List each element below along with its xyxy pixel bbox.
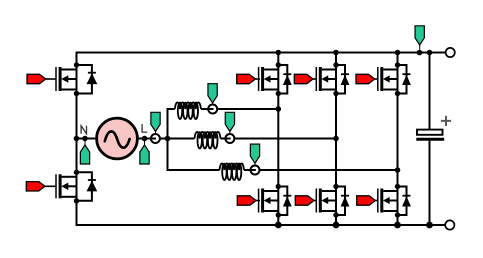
bottom rail (77, 224, 446, 226)
green probe arrow above circle3 (254, 163, 256, 166)
capacitor branch bottom wire (429, 139, 431, 225)
mosfet Q2 (left leg low side) (56, 170, 97, 204)
wire circle1 to leg A (217, 108, 278, 110)
measurement circle after L1 (208, 105, 217, 114)
mosfet Q1 (left leg high side) (56, 62, 97, 96)
gate wire Q5 (313, 78, 317, 80)
mosfet Q8 (leg C low side) (378, 184, 411, 218)
red gate arrow Q1 (27, 74, 46, 83)
leg B vertical wire (335, 53, 337, 226)
AC source V1 (97, 118, 138, 159)
node dot bottom rail legA (275, 222, 282, 229)
node dot rail-cap (427, 50, 433, 56)
red gate arrow Q6 (295, 196, 314, 205)
measurement circle after L2 (225, 134, 234, 143)
wire coil1 to circle1 (201, 108, 213, 110)
node dot rail-legA (276, 50, 282, 56)
red gate arrow Q7 (356, 74, 375, 83)
gate wire Q2 (45, 185, 56, 187)
wire circle2 to leg B (234, 138, 336, 140)
wire coil2 to circle2 (221, 138, 231, 140)
node dot L branch junction (165, 136, 171, 142)
node dot wire2-legB (333, 136, 339, 142)
node dot bottom rail cap (426, 222, 433, 229)
wire N node to AC source (77, 138, 98, 140)
gate wire Q1 (46, 78, 56, 80)
mosfet Q4 (leg A low side) (259, 184, 292, 218)
node dot rail-legC (395, 50, 401, 56)
inductor L1 (175, 102, 201, 109)
node dot bottom rail legB (333, 222, 340, 229)
red gate arrow Q3 (237, 74, 256, 83)
gate wire Q3 (255, 78, 260, 80)
node dot bottom rail legC (394, 222, 401, 229)
green probe arrow below L node (pointing up) (144, 139, 146, 146)
gate wire Q6 (314, 200, 317, 202)
green probe arrow above circle1 (212, 103, 214, 105)
gate wire Q8 (375, 200, 378, 202)
inductor L3 (220, 163, 244, 170)
measurement circle on L wire (151, 134, 160, 143)
measurement circle after L3 (251, 166, 260, 175)
green probe arrow on top rail (419, 45, 421, 53)
capacitor plus sign (441, 116, 451, 126)
red gate arrow Q8 (357, 196, 376, 205)
wire circle3 to leg C (259, 169, 397, 171)
gate wire Q4 (256, 200, 260, 202)
green probe arrow above L circle (155, 132, 157, 135)
leg C vertical wire (397, 53, 399, 226)
green probe arrow below N node (pointing up) (84, 139, 86, 146)
wire L circle to coil2 (160, 138, 195, 140)
node dot rail-legB (333, 50, 339, 56)
mosfet Q3 (leg A high side) (259, 62, 292, 96)
inductor L2 (195, 132, 221, 139)
gate wire Q7 (375, 78, 379, 80)
output capacitor C1 top plate (417, 130, 443, 135)
red gate arrow Q5 (294, 74, 313, 83)
red gate arrow Q2 (26, 182, 45, 191)
wire AC source to L junction (137, 138, 151, 140)
mosfet Q7 (leg C high side) (378, 62, 411, 96)
mosfet Q6 (leg B low side) (316, 184, 349, 218)
capacitor branch top wire (429, 53, 431, 131)
inductor branch vertical wire (168, 109, 220, 170)
node dot wire1-legA (276, 106, 282, 112)
label L (142, 124, 147, 132)
node dot N probe (82, 136, 88, 142)
node dot N junction (74, 136, 80, 142)
output capacitor C1 bottom plate (416, 138, 444, 141)
node dot wire3-legC (395, 167, 401, 173)
label N (81, 126, 86, 134)
leg A vertical wire (277, 53, 279, 226)
wire coil3 to circle3 (244, 169, 256, 171)
red gate arrow Q4 (237, 196, 256, 205)
node dot L probe (142, 136, 148, 142)
node dot rail-probe (417, 50, 423, 56)
mosfet Q5 (leg B high side) (316, 62, 349, 96)
left leg vertical wire (76, 52, 78, 227)
green probe arrow above circle2 (229, 132, 231, 135)
output terminal top (446, 48, 455, 57)
output terminal bottom (445, 220, 454, 229)
top rail (77, 52, 446, 54)
